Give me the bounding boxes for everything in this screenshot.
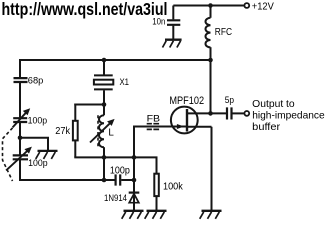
wire tank top rail [20, 59, 211, 61]
svg-text:1N914: 1N914 [104, 193, 128, 204]
resistor 100k [154, 174, 159, 196]
variable capacitor VC2 100p [13, 155, 28, 159]
node dot: crystal top on rail [102, 58, 107, 63]
node dot: RFC tank rail [208, 58, 213, 63]
wire gate lead through FB [134, 126, 186, 128]
crystal X1 [94, 75, 113, 89]
ground (below diode) [122, 211, 144, 219]
wire tank bottom horizontal A-B [74, 156, 134, 158]
svg-text:100p: 100p [28, 158, 47, 169]
svg-text:100k: 100k [163, 182, 184, 193]
svg-text:+12V: +12V [252, 1, 274, 12]
transistor Q1 MPF102 JFET [171, 107, 198, 134]
wire C2 right lead to node C [121, 179, 134, 181]
svg-text:buffer: buffer [252, 122, 281, 133]
terminal +12V [244, 3, 249, 8]
node dot: crystal bottom [102, 102, 107, 107]
svg-text:100p: 100p [110, 165, 130, 176]
svg-text:Output to: Output to [252, 99, 295, 110]
wire node C to diode and ground [133, 180, 135, 211]
wire VC2 to bottom corner [19, 160, 115, 181]
ground (left tap between VC1 and VC2) [36, 151, 58, 159]
wire node X1-bottom horizontal [74, 104, 104, 106]
svg-text:http://www.qsl.net/va3iul: http://www.qsl.net/va3iul [2, 0, 168, 19]
wire gate node vertical FB corner to C [133, 126, 135, 181]
wire RFC top lead [210, 6, 212, 18]
svg-text:high-impedance: high-impedance [252, 111, 325, 122]
wire L top lead [103, 105, 105, 116]
svg-text:RFC: RFC [215, 27, 232, 38]
dashed gang line linking VC1 and VC2 [3, 128, 13, 181]
node dot: drain junction [208, 111, 213, 116]
wire 68p to VC1 [19, 83, 21, 118]
wire crystal bottom [103, 90, 105, 104]
wire node B to 100k [134, 156, 157, 174]
gate arrowhead of Q1 [177, 124, 184, 129]
wire 100k bottom to ground [156, 196, 158, 211]
ground (below source) [200, 211, 222, 219]
wire VC1 to VC2 [19, 123, 21, 155]
inductor RFC coil [206, 18, 211, 48]
wire drain lead [187, 112, 226, 114]
wire source lead [187, 127, 212, 211]
ferrite bead FB dashes [147, 124, 159, 130]
wire output lead after 5p [233, 112, 245, 114]
diode 1N914 [129, 193, 140, 203]
resistor 27k [73, 121, 78, 141]
svg-text:27k: 27k [55, 126, 70, 137]
wire 27k top lead [74, 104, 76, 121]
arrow of L [90, 119, 115, 143]
svg-text:L: L [108, 128, 114, 139]
node dot: RFC top rail [208, 3, 213, 8]
capacitor 100p coupling [116, 174, 121, 185]
arrow of VC2 [6, 147, 32, 171]
variable capacitor VC1 100p [13, 118, 27, 122]
arrow of VC1 [13, 108, 31, 127]
ground (below 10n) [163, 40, 182, 48]
node dot B (gate node) [132, 155, 137, 160]
node dot C (diode junction) [132, 178, 137, 183]
capacitor 5p [227, 107, 232, 119]
wire L bottom lead [103, 147, 105, 157]
wire ground tap from node [20, 137, 48, 151]
node dot: left ground tap [18, 136, 23, 141]
svg-text:MPF102: MPF102 [169, 95, 204, 107]
wire +12V top rail [173, 5, 244, 7]
svg-text:X1: X1 [120, 77, 130, 88]
dashed core of L [97, 115, 99, 147]
svg-text:FB: FB [147, 113, 161, 124]
capacitor 68p [14, 78, 28, 82]
node dot A (tank bottom / L) [102, 155, 107, 160]
wire RFC bottom rail down to drain [210, 47, 212, 113]
ground (below 100k) [145, 211, 167, 219]
capacitor 10n [167, 20, 180, 25]
terminal output [244, 111, 249, 116]
svg-text:100p: 100p [28, 115, 47, 126]
wire 10n top lead [172, 6, 174, 20]
wire node A down to A' [103, 157, 105, 180]
svg-text:5p: 5p [225, 95, 234, 106]
wire 10n bottom lead [172, 26, 174, 40]
wire left branch vertical top [19, 59, 21, 77]
wire 27k bottom lead [74, 140, 76, 157]
svg-text:68p: 68p [28, 75, 44, 85]
wire crystal top [103, 59, 105, 75]
variable inductor L coil [99, 115, 104, 147]
node dot A' (bottom wire junction) [102, 178, 107, 183]
